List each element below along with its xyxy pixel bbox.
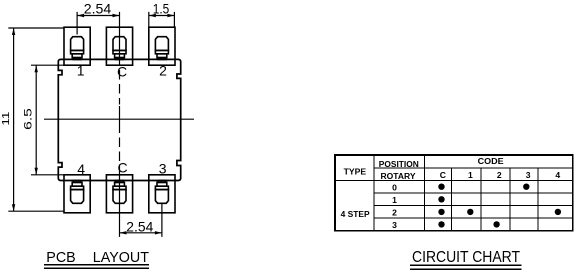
svg-text:2.54: 2.54 [84, 1, 112, 17]
svg-text:CIRCUIT CHART: CIRCUIT CHART [412, 249, 520, 266]
caption PCB LAYOUT underline 1 [44, 264, 149, 266]
dimension 11 arrows [12, 28, 15, 211]
table row line under 2 [374, 217, 573, 219]
dimension 2.54 top arrows [77, 14, 119, 17]
dimension 2.54 bottom arrows [120, 231, 162, 234]
dimension 6.5 extension lines [31, 65, 64, 175]
vertical dashed centerline [119, 70, 121, 105]
horizontal centerline [44, 118, 194, 120]
svg-text:4 STEP: 4 STEP [341, 209, 370, 219]
table row line under 1 [374, 205, 573, 207]
caption PCB LAYOUT underline 2 [44, 267, 149, 269]
table row line under ROTARY [335, 179, 573, 181]
contact dot row0 col C [438, 184, 444, 190]
svg-text:0: 0 [392, 183, 397, 193]
svg-text:2: 2 [497, 170, 502, 180]
table column line 2/3 [509, 168, 511, 231]
dimension 2.54 top extension lines [77, 12, 119, 65]
contact dot row2 col 1 [467, 209, 473, 215]
svg-text:1: 1 [468, 170, 473, 180]
dimension 6.5 arrows [35, 65, 38, 175]
svg-text:6.5: 6.5 [22, 108, 34, 130]
svg-text:2: 2 [159, 63, 167, 79]
svg-text:11: 11 [0, 111, 12, 125]
pad 4 [64, 175, 90, 213]
table row line under 0 [374, 192, 573, 194]
dimension 11 extension lines [8, 28, 64, 211]
svg-text:C: C [440, 170, 446, 180]
svg-text:4: 4 [77, 161, 85, 177]
table outer frame [335, 155, 573, 231]
dimension 2.54 bottom extension lines [120, 175, 162, 237]
svg-text:ROTARY: ROTARY [381, 171, 416, 181]
caption CIRCUIT CHART underline 2 [410, 268, 521, 270]
dimension 1.5 line [149, 15, 175, 17]
table row line under CODE [374, 167, 573, 169]
svg-text:2: 2 [392, 208, 397, 218]
caption CIRCUIT CHART underline 1 [410, 264, 521, 266]
svg-text:C: C [117, 63, 127, 79]
pad C bottom [106, 175, 132, 213]
contact dot row1 col C [438, 196, 444, 202]
svg-text:C: C [118, 160, 128, 176]
svg-text:4: 4 [555, 170, 560, 180]
svg-text:1: 1 [392, 195, 397, 205]
svg-text:1: 1 [77, 63, 85, 79]
dimension 1.5 arrows [149, 14, 175, 17]
svg-text:1.5: 1.5 [153, 1, 170, 17]
switch body outline [58, 59, 180, 180]
dimension 6.5 line [35, 65, 37, 175]
table column line 1/2 [480, 168, 482, 231]
contact dot row2 col 4 [555, 209, 561, 215]
svg-text:3: 3 [526, 170, 531, 180]
svg-text:3: 3 [159, 161, 167, 177]
contact dot row3 col C [438, 221, 444, 227]
pad C top [106, 27, 132, 65]
contact dot row3 col 2 [493, 221, 499, 227]
svg-text:CODE: CODE [478, 156, 504, 166]
pad 2 [149, 27, 175, 65]
svg-text:POSITION: POSITION [379, 159, 419, 169]
contact dot row2 col C [438, 209, 444, 215]
table column line POSITION/CODE [424, 155, 426, 231]
dimension 11 line [13, 28, 15, 211]
svg-text:LAYOUT: LAYOUT [93, 250, 149, 266]
dimension 2.54 bottom line [120, 232, 162, 234]
pad 3 [149, 175, 175, 213]
svg-text:2.54: 2.54 [126, 219, 153, 235]
table column line 3/4 [537, 168, 539, 231]
pad 1 [64, 27, 90, 65]
dimension 2.54 top line [77, 15, 119, 17]
table column line TYPE/POSITION [373, 155, 375, 231]
svg-text:PCB: PCB [46, 250, 75, 266]
contact dot row0 col 3 [523, 184, 529, 190]
svg-text:3: 3 [392, 220, 397, 230]
table column line C/1 [451, 168, 453, 231]
dimension 1.5 extension lines [149, 12, 175, 27]
svg-text:TYPE: TYPE [344, 166, 367, 176]
